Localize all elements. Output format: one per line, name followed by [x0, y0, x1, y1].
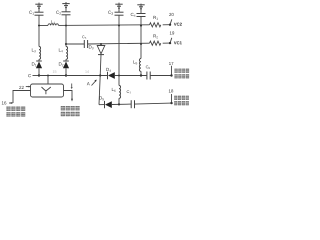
wire bus segment 4 to pin [150, 75, 171, 77]
wire L3 to D1 [38, 59, 40, 61]
label D4 [106, 68, 111, 72]
annotation text left line 1 [7, 107, 26, 111]
pin label 20 [169, 13, 174, 16]
wire column1 rail1 to L3 [38, 26, 40, 47]
inductor L5 [139, 59, 141, 72]
ground (up) for C3 [115, 3, 122, 13]
resistor R2 [150, 41, 161, 45]
pin label 14 (faint) [85, 70, 89, 72]
wire C4 lead down to rail1 [140, 17, 142, 26]
node label C [28, 74, 31, 77]
wire D1 to bus [38, 68, 40, 75]
wire C1 lead down to rail1 [38, 15, 40, 25]
wire box left lead [13, 91, 31, 104]
pin 18 tick [171, 94, 173, 103]
pin 17 tick [171, 66, 173, 76]
capacitor C4 [137, 14, 146, 17]
inductor L6 [119, 86, 121, 99]
tick above right lead [71, 84, 73, 90]
wire bottom rail segment 3 to pin [135, 103, 172, 104]
wire L4 to D2 [65, 59, 67, 61]
diode D3 [97, 44, 105, 55]
wire bus left stub [33, 75, 40, 77]
ground (up) for C4 [137, 4, 144, 14]
pin label 16 with arrow [2, 101, 13, 104]
label L3 [32, 48, 36, 52]
node dot pin20 [169, 24, 171, 26]
node dot bus-D3 [99, 74, 101, 76]
node label A with arrow [87, 80, 97, 86]
net label VC2 [174, 23, 182, 26]
label C4 [131, 13, 136, 17]
node dot bus-col3 [118, 75, 120, 77]
node dot col1-rail1 [38, 25, 40, 27]
node dot rail2 at C2 column [65, 43, 67, 45]
node dot bus-L5 [140, 74, 142, 76]
wire rail2 left segment [66, 43, 84, 45]
capacitor C1 [35, 12, 44, 15]
capacitor C6 [147, 72, 150, 80]
resistor R1 [150, 23, 161, 27]
label C2 [56, 11, 61, 15]
wire rail1 right segment to pin [163, 24, 170, 26]
pin 20 tick [170, 19, 172, 24]
wire bus segment 3 [115, 75, 147, 77]
node dot D3-rail2 [100, 43, 102, 45]
pin label 17 [169, 62, 173, 65]
wire box top lead to bus [47, 76, 49, 85]
node dot pin17 [170, 74, 172, 76]
wire bottom rail segment 2 [112, 103, 131, 105]
wire column3 bus to L6 [118, 76, 120, 86]
label R1 [153, 16, 158, 20]
ground (up) for C1 [35, 3, 42, 13]
wire column2 rail2 to L4 [65, 44, 67, 47]
label D1 [32, 62, 36, 66]
node dot bus-box lead [47, 75, 49, 77]
node dot bus-D2 [65, 74, 67, 76]
label L4 [59, 48, 63, 52]
node dot col4-rail2 [140, 43, 142, 45]
wire column4 rail1 to rail2 [140, 26, 142, 45]
wire bottom rail segment 1 [99, 104, 105, 106]
node dot col3-rail1 [118, 25, 120, 27]
annotation text right-top line 2 [175, 74, 190, 78]
node dot bus-D1 [38, 74, 40, 76]
wire rail1 left segment [39, 25, 48, 27]
label D2 [59, 62, 64, 66]
diode D4 [108, 72, 115, 79]
wire rail2 middle segment [88, 42, 150, 45]
label D3 [89, 45, 94, 49]
wire box right lead with arrow [64, 91, 74, 102]
oscillator box U1 [31, 84, 64, 97]
wire L6 to bottom rail [118, 98, 120, 104]
inductor L4 [66, 47, 68, 60]
diode D5 [105, 101, 112, 108]
label C3 [108, 11, 113, 15]
crystal symbol inside box [42, 87, 51, 94]
annotation text middle line 1 [61, 106, 80, 110]
label C7 [127, 90, 131, 93]
pin label 22 with arrow [19, 86, 30, 89]
node dot bottom-L6 [118, 103, 120, 105]
label L6 [112, 88, 116, 92]
diode D1 [36, 61, 42, 68]
node dot col2-rail1 [65, 25, 67, 27]
inductor L3 [39, 47, 41, 60]
pin label 19 [170, 31, 174, 34]
capacitor C3 [115, 12, 124, 15]
node dot col4-rail1 [140, 24, 142, 26]
node dot pin18 [170, 102, 172, 104]
node dot pin19 [169, 42, 171, 44]
wire C2 lead down to rail1 [65, 15, 67, 26]
label C5 [82, 36, 86, 39]
label R2 [153, 34, 158, 38]
annotation text middle line 2 [61, 112, 80, 116]
label L1 [52, 20, 56, 24]
wire column2 rail1 to rail2 [65, 26, 67, 45]
wire C3 lead down to rail1 [118, 15, 120, 25]
label L5 [133, 60, 137, 64]
label D5 [99, 96, 104, 100]
capacitor C5 [84, 40, 87, 48]
annotation text right-top line 1 [175, 69, 190, 73]
net label VC1 [174, 41, 182, 44]
annotation text left line 2 [7, 112, 26, 116]
annotation text right-bottom line 1 [174, 96, 189, 100]
pin label 18 [169, 89, 173, 92]
annotation text right-bottom line 2 [174, 101, 189, 105]
wire rail1 middle segment [58, 24, 149, 27]
wire column4 rail2 to L5 [140, 44, 142, 59]
wire rail2 right segment to pin [163, 42, 170, 44]
diode D2 [63, 61, 69, 68]
capacitor C7 [131, 100, 134, 108]
capacitor C2 [62, 12, 71, 15]
wire bus segment 1 [39, 75, 66, 77]
pin 19 tick [170, 38, 172, 43]
wire D2 to bus [65, 68, 67, 75]
wire L5 to bus [140, 71, 142, 75]
label C6 [146, 66, 150, 70]
pin label 15 (faint) [53, 70, 57, 73]
ground (up) for C2 [62, 2, 69, 12]
wire column3 rail1 to bus [118, 26, 120, 76]
label C1 [29, 11, 34, 15]
wire D3 to bus [99, 55, 102, 76]
wire D3-column down to bottom rail corner [99, 76, 100, 105]
inductor L1 [48, 24, 58, 26]
wire bus segment 2 [66, 75, 108, 77]
